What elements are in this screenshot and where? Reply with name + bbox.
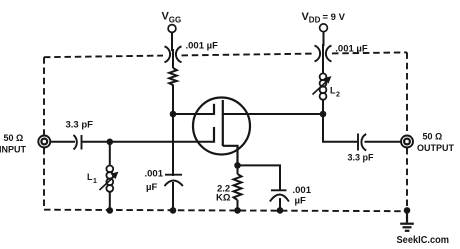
svg-text:INPUT: INPUT [0,145,27,155]
terminal VDD [320,24,328,32]
wire: VDD terminal through feedthrough to L2 [322,32,325,74]
shield box bottom edge / ground bus (dashed) [44,210,407,212]
label VGG [162,11,182,25]
label .001 uF (source bypass) [293,185,312,207]
svg-text:.001 µF: .001 µF [335,44,368,55]
svg-text:= 9 V: = 9 V [323,12,346,23]
terminal VGG [168,25,176,33]
svg-text:.001: .001 [145,169,164,180]
label L1 [87,172,97,185]
shield box top edge (dashed) [44,52,407,57]
wire: node A to gate 1 [110,141,214,143]
wire: drain to node C [223,113,323,115]
node C (drain junction dot) [320,111,327,118]
svg-text:50 Ω: 50 Ω [423,132,443,142]
wire: R1 to node B [172,85,174,115]
svg-text:OUTPUT: OUTPUT [417,143,455,153]
capacitor C1 3.3 pF (input) [74,135,82,150]
dual-gate MOSFET Q1 [193,98,250,166]
svg-text:3.3 pF: 3.3 pF [348,153,375,163]
label 2.2 KOhm [216,184,231,204]
node B (gate-2 junction dot) [170,111,177,118]
resistor R2 2.2 kohm (source) [234,165,242,210]
label .001 uF (gate-2 bypass) [145,169,164,193]
svg-text:50 Ω: 50 Ω [4,133,24,143]
shield box right edge (dashed) [406,52,408,211]
resistor R1 (gate-2 bias) [169,68,177,85]
wire: node B to gate 2 [173,113,214,115]
ground [400,210,414,230]
wire: C1 to node A [82,141,110,143]
junction dot: C2 to ground bus [170,207,177,214]
node D (source junction dot) [234,162,241,169]
input connector J1 (50 ohm) [38,136,50,148]
capacitor C4 3.3 pF (output) [358,134,366,151]
junction dot: L1 to ground bus [107,207,114,214]
wire: node C down and right to C4 [323,114,358,142]
svg-text:KΩ: KΩ [216,193,231,204]
wire: C4 to output connector [365,141,402,143]
junction dot: R2 to ground bus [234,207,241,214]
output connector J2 (50 ohm) [401,136,413,148]
svg-text:.001: .001 [293,185,312,196]
wire: C2 to ground bus [172,182,174,210]
node A (gate-1 junction dot) [107,139,114,146]
svg-text:DD: DD [309,16,321,25]
svg-text:µF: µF [295,196,306,207]
wire: input connector to C1 [50,141,75,143]
svg-text:µF: µF [146,182,157,193]
svg-text:GG: GG [169,16,181,25]
inductor L2 (variable, drain tank) [313,73,332,114]
label L2 [330,86,340,99]
inductor L1 (variable, gate-1 tank) [100,142,119,211]
svg-text:1: 1 [93,178,97,185]
svg-text:3.3 pF: 3.3 pF [66,119,94,130]
label VDD = 9 V [302,11,346,25]
feedthrough capacitor .001 uF (VDD) [315,46,332,62]
svg-text:2: 2 [336,91,340,98]
capacitor C2 .001 uF (gate-2 bypass) [165,175,183,186]
svg-text:SeekIC.com: SeekIC.com [397,235,450,246]
wire: node B down to C2 (crosses gate-1 line, no connection) [172,114,174,176]
feedthrough capacitor .001 uF (VGG) [165,46,182,62]
shield box left edge (dashed) [43,57,45,210]
junction dot: C3 to ground bus [277,207,284,214]
junction dot: shield to ground [404,207,411,214]
wire: C3 to ground bus [279,198,281,210]
wire: node D to C3 [238,165,281,190]
wire: VGG terminal through feedthrough to R1 [172,32,173,68]
capacitor C3 .001 uF (source bypass) [270,190,289,201]
svg-text:.001 µF: .001 µF [186,41,219,52]
